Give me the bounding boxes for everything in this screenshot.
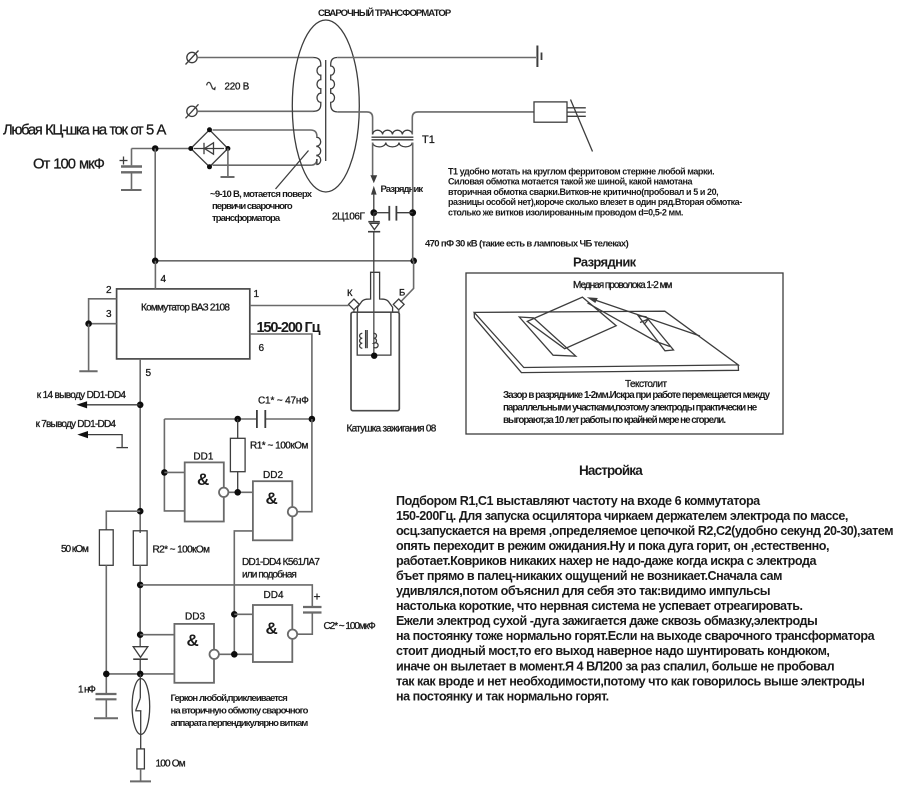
terminal K connector diamond bbox=[349, 299, 360, 310]
ground pin 2-3 bbox=[79, 324, 97, 372]
pin 5 wire bbox=[139, 359, 141, 533]
coil primary winding symbol bbox=[360, 333, 363, 348]
ignition coil body bbox=[351, 312, 399, 411]
svg-text:DD2: DD2 bbox=[263, 470, 283, 481]
svg-text:DD1-DD4 К561ЛА7: DD1-DD4 К561ЛА7 bbox=[242, 557, 320, 568]
logic gate DD2 bbox=[253, 481, 292, 540]
node coil winding bottom bbox=[371, 353, 377, 359]
wire C1 right to DD2 column bbox=[265, 418, 312, 420]
svg-text:DD4: DD4 bbox=[264, 590, 284, 601]
wire DD1 upper input bbox=[164, 471, 184, 473]
svg-text:150-200 Гц: 150-200 Гц bbox=[257, 320, 321, 336]
wire main bottom bus bbox=[155, 260, 414, 262]
diode inside bridge bbox=[194, 143, 224, 154]
svg-text:удивлялся,потом объяснил для с: удивлялся,потом объяснил для себя это та… bbox=[396, 584, 770, 598]
mains socket terminal Ø neutral bbox=[186, 104, 199, 118]
logic gate DD3 bbox=[174, 624, 214, 683]
node bridge bottom bbox=[207, 164, 212, 169]
svg-text:6: 6 bbox=[259, 343, 265, 354]
svg-text:осц.запускается на время ,опре: осц.запускается на время ,определяемое ц… bbox=[396, 524, 893, 538]
svg-text:150-200Гц. Для запуска осцилят: 150-200Гц. Для запуска осцилятора чиркае… bbox=[396, 509, 848, 523]
ground at bridge right bbox=[221, 149, 235, 178]
wire R2 down to diode and DD3 bbox=[139, 565, 141, 646]
wire T1 secondary left lead down bbox=[372, 143, 374, 177]
svg-text:стоит диодный мост,то его выхо: стоит диодный мост,то его выход наверное… bbox=[396, 644, 829, 658]
svg-text:Силовая обмотка мотается такой: Силовая обмотка мотается такой же шиной,… bbox=[448, 177, 693, 187]
svg-text:3: 3 bbox=[106, 309, 112, 320]
node DD1 upper input bbox=[161, 469, 168, 476]
svg-text:Зазор в разряднике 1-2мм.Искра: Зазор в разряднике 1-2мм.Искра при работ… bbox=[503, 390, 771, 401]
coil secondary winding symbol bbox=[374, 333, 378, 348]
label zazor annotation bbox=[503, 390, 771, 426]
copper wire right descent bbox=[588, 303, 671, 347]
svg-text:бъет прямо в палец-никаких ощу: бъет прямо в палец-никаких ощущений не в… bbox=[396, 569, 782, 583]
ignition coil inner winding box bbox=[357, 312, 391, 355]
node pin5 to osc junction bbox=[137, 508, 144, 515]
spark gap upper arrow bbox=[370, 175, 377, 183]
capacitor 100uF bbox=[121, 149, 142, 191]
svg-text:работает.Ковриков никаких нахе: работает.Ковриков никаких нахер не надо-… bbox=[396, 554, 817, 568]
label gerkon annotation bbox=[171, 693, 309, 729]
arrow to pin 14 of DD1-DD4 bbox=[76, 401, 140, 408]
svg-text:100 Ом: 100 Ом bbox=[156, 759, 186, 770]
small arrow on right strip bbox=[640, 319, 649, 325]
welding electrode rod bbox=[571, 100, 593, 152]
node reed right bbox=[137, 671, 144, 678]
secondary winding welding bbox=[331, 58, 338, 112]
svg-text:5: 5 bbox=[146, 368, 152, 379]
spark gap detail box bbox=[466, 273, 783, 434]
wire C1 top rail bbox=[164, 418, 257, 420]
transformer T1 top winding bbox=[373, 130, 413, 134]
svg-text:СВАРОЧНЫЙ ТРАНСФОРМАТОР: СВАРОЧНЫЙ ТРАНСФОРМАТОР bbox=[318, 7, 452, 19]
copper wire left arch bbox=[527, 297, 616, 349]
svg-text:Подбором R1,С1 выставляют част: Подбором R1,С1 выставляют частоту на вхо… bbox=[396, 494, 761, 508]
textolite board thickness bbox=[474, 312, 738, 372]
reed switch gerkon ellipse bbox=[132, 679, 150, 735]
node pin3 bbox=[85, 320, 92, 327]
textolite board top face bbox=[474, 311, 738, 367]
pointer arrow to wire apex bbox=[587, 297, 700, 336]
terminal B connector diamond bbox=[393, 299, 404, 310]
svg-text:на постоянку тоже нормально го: на постоянку тоже нормально горят.Если н… bbox=[396, 629, 876, 643]
svg-text:К: К bbox=[347, 288, 353, 299]
svg-text:&: & bbox=[266, 489, 278, 508]
welding transformer ellipse bbox=[292, 20, 359, 192]
node bus right bbox=[410, 258, 417, 265]
node DD3 upper input junction bbox=[137, 631, 144, 638]
svg-text:Т1: Т1 bbox=[422, 134, 435, 146]
commutator VAZ 2108 box bbox=[117, 289, 250, 359]
resistor R2 bbox=[133, 531, 147, 566]
coil core lines bbox=[366, 330, 368, 348]
node 470pF right bbox=[409, 209, 416, 216]
mains socket terminal Ø phase bbox=[186, 51, 199, 65]
svg-text:Геркон любой,приклеивается: Геркон любой,приклеивается bbox=[171, 693, 288, 704]
svg-text:DD3: DD3 bbox=[185, 612, 205, 623]
DD2 output bubble bbox=[288, 507, 297, 516]
svg-text:&: & bbox=[187, 631, 199, 650]
svg-text:&: & bbox=[197, 470, 209, 489]
node C1 right top bbox=[309, 416, 316, 423]
svg-text:DD1: DD1 bbox=[193, 452, 213, 463]
T1 core lines bbox=[372, 137, 414, 140]
svg-text:Настройка: Настройка bbox=[579, 463, 643, 478]
node DD4 lower input bbox=[231, 651, 238, 658]
wire DD1 feedback left bbox=[164, 419, 184, 511]
wire DD2 out up to C1 bbox=[297, 419, 312, 512]
svg-text:Т1 удобно мотать на круглом фе: Т1 удобно мотать на круглом ферритовом с… bbox=[448, 167, 714, 177]
node junction at 100uF top bbox=[152, 145, 159, 152]
wire T1 right lead down to bus bbox=[412, 143, 414, 261]
wire lower junction row bbox=[106, 673, 174, 675]
capacitor C2 bbox=[303, 607, 322, 613]
wire bus to B terminal bbox=[401, 261, 414, 302]
svg-text:Разрядник: Разрядник bbox=[381, 184, 424, 195]
pin 3 wire bbox=[89, 323, 117, 325]
svg-text:аппарата перпендикулярно витка: аппарата перпендикулярно виткам bbox=[171, 718, 309, 729]
svg-text:Любая КЦ-шка на ток от 5 А: Любая КЦ-шка на ток от 5 А bbox=[3, 123, 167, 139]
annotation pointer to extra winding bbox=[276, 151, 309, 190]
capacitor C1 bbox=[257, 410, 265, 428]
wire bridge top corner to extra winding bbox=[213, 130, 317, 136]
svg-text:параллельными участками,поэтом: параллельными участками,поэтому электрод… bbox=[503, 403, 758, 414]
wire secondary bottom to T1 bbox=[337, 112, 372, 135]
wire mains top to transformer primary bbox=[197, 57, 313, 59]
wire K terminal to coil bbox=[353, 310, 355, 312]
node 470pF left bbox=[370, 209, 377, 216]
svg-text:к 14 выводу DD1-DD4: к 14 выводу DD1-DD4 bbox=[37, 390, 127, 401]
svg-text:2: 2 bbox=[106, 285, 112, 296]
diode 2Ts106G bbox=[368, 213, 380, 272]
svg-text:2Ц106Г: 2Ц106Г bbox=[332, 212, 365, 223]
wire T1 to electrode holder bbox=[412, 112, 534, 135]
svg-text:Б: Б bbox=[399, 288, 405, 299]
svg-text:470 пФ 30 кВ (такие есть в лам: 470 пФ 30 кВ (такие есть в ламповых ЧБ т… bbox=[425, 239, 629, 250]
wire DD4 upper input bbox=[234, 613, 253, 615]
svg-text:вторичная обмотка сварки.Витко: вторичная обмотка сварки.Витков-не крити… bbox=[448, 187, 718, 197]
svg-text:4: 4 bbox=[161, 274, 167, 285]
node reed left bbox=[103, 671, 110, 678]
svg-text:Текстолит: Текстолит bbox=[625, 379, 668, 390]
ignition coil HV tower bbox=[358, 272, 393, 312]
arrow to pin 7 of DD1-DD4 bbox=[77, 431, 128, 448]
electrode holder block bbox=[534, 102, 567, 122]
DD1 output bubble bbox=[219, 488, 228, 497]
label T1 udobno motat annotation bbox=[448, 167, 742, 218]
node pin5 arrow14 bbox=[137, 402, 144, 409]
svg-text:на постоянку и так нормально г: на постоянку и так нормально горят. bbox=[396, 689, 609, 703]
logic gate DD4 bbox=[253, 605, 292, 662]
pin 1 wire to K bbox=[250, 305, 349, 307]
pin 4 wire bbox=[154, 261, 156, 289]
svg-text:~9-10 В, мотается поверх: ~9-10 В, мотается поверх bbox=[210, 189, 313, 200]
svg-text:или подобная: или подобная bbox=[242, 569, 296, 581]
label ~9-10V annotation bbox=[210, 189, 313, 224]
workpiece clamp symbol bbox=[537, 46, 541, 68]
svg-text:R1* ~ 100кОм: R1* ~ 100кОм bbox=[250, 441, 309, 452]
wire DD1 out to node bbox=[228, 491, 253, 493]
resistor 50kOm bbox=[99, 530, 113, 566]
wire horizontal to C2 bbox=[140, 585, 312, 606]
svg-text:настолька короткие, что нервна: настолька короткие, что нервная система … bbox=[396, 599, 803, 613]
svg-text:50 кОм: 50 кОм bbox=[61, 544, 89, 555]
DD3 output bubble bbox=[210, 650, 219, 659]
svg-text:Разрядник: Разрядник bbox=[573, 255, 637, 270]
svg-text:&: & bbox=[266, 619, 278, 638]
svg-text:иначе он вылетает в момент.Я 4: иначе он вылетает в момент.Я 4 ВЛ200 за … bbox=[396, 659, 835, 673]
svg-text:Коммутатор ВАЗ 2108: Коммутатор ВАЗ 2108 bbox=[141, 303, 230, 314]
wire mains bottom to transformer primary bbox=[197, 110, 313, 112]
capacitor 1nF bbox=[94, 694, 118, 718]
AC symbol ~ bbox=[207, 82, 216, 90]
svg-text:От 100 мкФ: От 100 мкФ bbox=[33, 157, 105, 173]
electrode holder prongs bbox=[567, 108, 586, 117]
paragraph nastroyka body bbox=[396, 494, 893, 703]
wire secondary top to workpiece bbox=[337, 57, 536, 59]
svg-text:Ежели электрод сухой -дуга заж: Ежели электрод сухой -дуга зажигается да… bbox=[396, 614, 817, 628]
svg-text:220 В: 220 В bbox=[225, 82, 250, 93]
wire node cap to bridge bbox=[132, 148, 191, 150]
node DD1 out R1 bbox=[234, 489, 241, 496]
resistor R1 bbox=[230, 419, 245, 492]
svg-text:к 7выводу DD1-DD4: к 7выводу DD1-DD4 bbox=[36, 419, 117, 430]
primary winding 220V bbox=[314, 58, 321, 112]
node bridge right bbox=[225, 146, 230, 151]
wire vertical node down to bus bbox=[154, 149, 156, 261]
wire DD4 out to C2 bbox=[297, 613, 312, 634]
svg-text:разницы особой нет),короче ско: разницы особой нет),короче сколько влезе… bbox=[448, 197, 742, 207]
wire bridge bottom corner to extra winding bbox=[213, 159, 317, 165]
svg-text:столько же витков изолированны: столько же витков изолированным проводом… bbox=[448, 207, 683, 217]
spark gap lower arrow bbox=[371, 186, 377, 213]
resistor 100 Om bbox=[137, 749, 145, 769]
wire pin5 node to 50k bbox=[106, 511, 140, 530]
node DD4 upper input bbox=[231, 611, 238, 618]
copper strip right bbox=[638, 316, 673, 351]
svg-text:трансформатора: трансформатора bbox=[212, 213, 281, 224]
svg-text:Катушка зажигания 08: Катушка зажигания 08 bbox=[347, 424, 437, 435]
svg-text:выгорают,за 10 лет работы по к: выгорают,за 10 лет работы по крайней мер… bbox=[503, 415, 726, 426]
diode lower left bbox=[133, 647, 148, 674]
node C1-R1 top bbox=[234, 416, 241, 423]
svg-text:первичи сварочного: первичи сварочного bbox=[212, 201, 293, 212]
svg-text:опять переходит в режим ожидан: опять переходит в режим ожидания.Ну и по… bbox=[396, 539, 829, 553]
svg-text:1: 1 bbox=[254, 289, 260, 300]
DD4 output bubble bbox=[288, 630, 297, 639]
wire DD3 out to DD4 in bbox=[219, 653, 253, 655]
wire B terminal to coil bbox=[398, 310, 400, 312]
wire DD2 lower input down bbox=[234, 531, 253, 654]
wire 50k down bbox=[105, 565, 107, 693]
pin 2 wire bbox=[89, 299, 117, 324]
node bridge left bbox=[188, 146, 193, 151]
svg-text:R2* ~ 100кОм: R2* ~ 100кОм bbox=[153, 545, 211, 556]
svg-text:на вторичную обмотку сварочног: на вторичную обмотку сварочного bbox=[171, 706, 309, 717]
capacitor 100uF plus sign bbox=[120, 157, 128, 165]
node bus left bbox=[152, 258, 159, 265]
transformer T1 bottom winding bbox=[373, 143, 413, 147]
wire HV line into coil tower bbox=[373, 272, 375, 356]
node R2 hline bbox=[137, 582, 144, 589]
extra winding 9-10V bbox=[317, 136, 321, 164]
svg-text:С1* ~ 47нФ: С1* ~ 47нФ bbox=[258, 396, 309, 407]
svg-text:С2* ~ 100мкФ: С2* ~ 100мкФ bbox=[324, 621, 377, 632]
svg-text:+: + bbox=[314, 590, 321, 604]
copper strip left bbox=[519, 317, 576, 356]
node bridge top bbox=[207, 127, 212, 132]
transformer core line bbox=[325, 60, 327, 161]
wire DD3 upper input bbox=[140, 634, 174, 636]
capacitor 470pF 30kV bbox=[374, 206, 413, 221]
svg-text:1 нФ: 1 нФ bbox=[78, 685, 96, 696]
logic gate DD1 bbox=[185, 462, 224, 521]
diode bridge KTs rectifier outline bbox=[191, 130, 228, 167]
svg-text:так как вроде и нет необходимо: так как вроде и нет необходимости,потому… bbox=[396, 674, 864, 688]
ground at 100 Om bbox=[130, 769, 151, 782]
svg-text:Медная проволока 1-2 мм: Медная проволока 1-2 мм bbox=[573, 280, 673, 291]
pin 6 wire bbox=[250, 334, 312, 419]
reed switch contacts bbox=[135, 674, 141, 749]
